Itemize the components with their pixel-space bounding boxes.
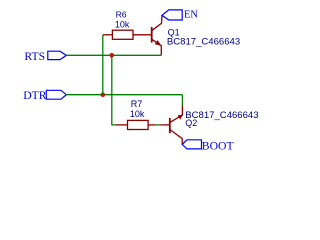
wire net RTS vertical to R7: [112, 55, 115, 125]
port DTR: [46, 90, 66, 99]
port EN: [162, 10, 182, 20]
Q2 emitter arrow: [178, 115, 183, 119]
svg-text:RTS: RTS: [24, 50, 45, 63]
junction DTR/R6: [101, 92, 106, 97]
wire net RTS horizontal: [66, 54, 161, 56]
transistor Q1: [152, 15, 162, 55]
wire net DTR horizontal: [66, 94, 182, 96]
port RTS: [48, 51, 67, 59]
Q1 emitter arrow: [155, 41, 160, 46]
svg-text:R6: R6: [116, 10, 127, 20]
resistor R7: [115, 120, 156, 129]
wire net DTR vertical to Q2 emitter: [181, 95, 183, 106]
svg-text:Q2: Q2: [185, 118, 197, 128]
svg-text:10k: 10k: [130, 109, 145, 119]
wire net DTR vertical to R6: [102, 35, 104, 95]
wire R7 to Q2 base: [156, 124, 161, 126]
svg-text:R7: R7: [131, 99, 143, 109]
junction RTS/R7: [110, 53, 115, 58]
svg-text:10k: 10k: [115, 19, 130, 29]
svg-text:EN: EN: [184, 9, 198, 20]
svg-text:BOOT: BOOT: [202, 140, 234, 153]
svg-text:BC817_C466643: BC817_C466643: [167, 37, 240, 48]
svg-text:DTR: DTR: [23, 89, 47, 102]
port BOOT: [182, 140, 201, 149]
resistor R6: [103, 30, 151, 39]
transistor Q2: [160, 105, 182, 144]
